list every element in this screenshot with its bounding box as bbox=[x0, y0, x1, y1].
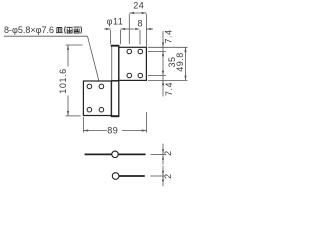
svg-text:2: 2 bbox=[163, 151, 173, 156]
dim 89 line bbox=[83, 129, 146, 131]
dim phi11 line with outside arrows bbox=[104, 28, 134, 30]
dim 8 extension line bbox=[139, 30, 141, 45]
right side extension lines bbox=[148, 47, 188, 80]
hole L4 bbox=[99, 107, 104, 112]
hole U1 bbox=[127, 49, 132, 54]
svg-text:8: 8 bbox=[137, 18, 142, 28]
svg-text:24: 24 bbox=[133, 0, 144, 10]
dim 101.6 extension lines bbox=[66, 45, 83, 116]
dim phi11 extension lines bbox=[111, 30, 121, 44]
dim 49.8 line bbox=[184, 47, 186, 80]
dim 24 line bbox=[129, 12, 146, 14]
svg-text:2: 2 bbox=[163, 174, 173, 179]
hole L2 bbox=[99, 84, 104, 89]
pin 1 head circle bbox=[112, 151, 118, 157]
hole L1 bbox=[87, 84, 92, 89]
open paren bbox=[64, 26, 67, 33]
dim chain line 7.4/35/7.4 bbox=[162, 31, 164, 97]
pin 1 dim 2 line bbox=[162, 144, 164, 165]
close paren bbox=[80, 26, 83, 33]
svg-text:8-φ5.8×φ7.6: 8-φ5.8×φ7.6 bbox=[4, 25, 54, 35]
dim 101.6 line bbox=[67, 45, 69, 116]
dim 89 extension lines bbox=[83, 112, 146, 133]
svg-text:7.4: 7.4 bbox=[164, 82, 174, 96]
kanji ryou (both) bbox=[67, 27, 73, 33]
pin 2 head circle bbox=[112, 173, 119, 180]
hole U2 bbox=[138, 49, 143, 54]
leader line to hole bbox=[88, 36, 99, 80]
knuckle barrel bbox=[111, 46, 120, 117]
svg-text:101.6: 101.6 bbox=[58, 68, 68, 94]
hole U3 bbox=[127, 73, 132, 78]
dim 24 extension lines bbox=[129, 14, 146, 47]
upper plate (right leaf) bbox=[119, 47, 147, 80]
svg-text:49.8: 49.8 bbox=[175, 52, 185, 72]
hole spec label text bbox=[4, 25, 54, 35]
hole L3 bbox=[87, 107, 92, 112]
kanji sara (dish/countersunk) bbox=[56, 27, 63, 32]
pin 1 rod bbox=[85, 153, 146, 155]
lower plate (left leaf) bbox=[83, 81, 111, 116]
svg-text:89: 89 bbox=[107, 125, 118, 135]
pin 2 dim 2 line bbox=[162, 166, 164, 186]
dim 8 line with outside arrows bbox=[135, 28, 153, 30]
kanji men (face) bbox=[73, 27, 79, 33]
svg-text:φ11: φ11 bbox=[107, 16, 124, 26]
svg-text:7.4: 7.4 bbox=[164, 29, 174, 43]
pin 1 dim ext line bbox=[151, 153, 165, 155]
pin 2 rod bbox=[119, 175, 145, 177]
label underline bbox=[4, 35, 88, 37]
pin 2 dim ext line bbox=[151, 175, 165, 177]
hole U4 bbox=[138, 73, 143, 78]
